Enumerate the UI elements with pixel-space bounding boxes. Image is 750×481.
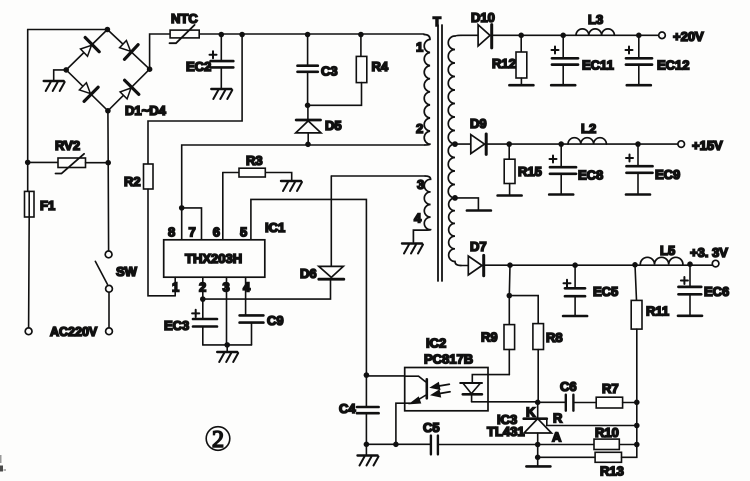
scan mark left edge bbox=[0, 455, 6, 472]
node C3 R4 junction bbox=[305, 103, 311, 109]
node D7 feedback branch bbox=[507, 262, 513, 268]
terminal +3.3V bbox=[712, 260, 719, 267]
wire LED cathode to K node bbox=[472, 401, 538, 403]
wire node column R11 to R10 bbox=[636, 402, 638, 444]
wire +20V rail bbox=[492, 34, 659, 36]
svg-text:C6: C6 bbox=[560, 379, 577, 394]
node C4 bottom ground bbox=[364, 442, 370, 448]
svg-text:TL431: TL431 bbox=[487, 424, 525, 439]
wire secondary top to D10 bbox=[461, 34, 478, 36]
svg-text:C9: C9 bbox=[267, 313, 284, 328]
svg-text:R11: R11 bbox=[646, 304, 669, 319]
svg-text:A: A bbox=[552, 430, 562, 445]
ground R3 bbox=[281, 181, 302, 191]
svg-text:D6: D6 bbox=[300, 266, 317, 281]
resistor R7 bbox=[596, 381, 637, 408]
node bridge top bbox=[105, 27, 111, 33]
svg-text:AC220V: AC220V bbox=[50, 325, 98, 339]
transformer T primary winding 1-2 bbox=[416, 35, 430, 146]
wire D6 anode to aux winding pin3 bbox=[331, 175, 425, 177]
wire R2 bottom to IC1 pin1 bbox=[148, 189, 175, 296]
node emitter ground rail bbox=[393, 442, 399, 448]
node C4 top bbox=[364, 372, 370, 378]
svg-text:D1~D4: D1~D4 bbox=[125, 103, 167, 118]
thermistor NTC bbox=[170, 11, 200, 43]
svg-text:5: 5 bbox=[240, 225, 247, 240]
svg-text:THX203H: THX203H bbox=[185, 251, 242, 266]
wire pin7 tie bbox=[182, 208, 202, 240]
node bridge right bbox=[147, 66, 153, 72]
node RV2 left junction bbox=[25, 160, 31, 166]
wire C4 node to collector bbox=[366, 375, 404, 377]
node K junction bbox=[535, 400, 541, 406]
svg-text:+20V: +20V bbox=[673, 29, 704, 44]
wire R9 node to R8 bbox=[509, 296, 538, 324]
svg-text:F1: F1 bbox=[40, 198, 55, 213]
resistor R11 bbox=[631, 265, 669, 403]
svg-text:EC9: EC9 bbox=[655, 167, 680, 182]
wire bridge right up to NTC bbox=[150, 34, 170, 69]
wire top rail NTC to transformer bbox=[199, 33, 424, 35]
wire primary ground rail to C5 bbox=[366, 443, 430, 445]
ground C4 bbox=[358, 444, 379, 465]
ground EC2 bbox=[211, 89, 232, 99]
phototransistor IC2 bbox=[405, 376, 427, 404]
node secondary tap ground bbox=[452, 195, 458, 201]
shunt regulator U3 TL431 bbox=[487, 402, 637, 444]
wire +3.3V rail bbox=[484, 264, 713, 266]
wire K node to C6 bbox=[538, 401, 566, 403]
inductor L2 bbox=[568, 121, 606, 144]
transformer T core bbox=[433, 14, 442, 281]
svg-text:EC11: EC11 bbox=[582, 58, 614, 73]
capacitor EC9 bbox=[626, 141, 680, 193]
ground R15 bbox=[498, 195, 522, 197]
svg-text:7: 7 bbox=[189, 225, 196, 240]
ground bridge left bbox=[44, 81, 65, 91]
node D5 bottom on drain wire bbox=[305, 142, 311, 148]
svg-text:3: 3 bbox=[417, 177, 424, 192]
diode D3 bottom-left bbox=[79, 83, 98, 102]
ground EC6 bbox=[678, 315, 702, 317]
capacitor EC6 bbox=[679, 261, 730, 314]
IC U1 THX203H bbox=[164, 220, 286, 277]
wire bridge left to ground bbox=[54, 70, 66, 80]
ground TL431 bbox=[526, 465, 550, 467]
ground EC12 bbox=[627, 84, 651, 86]
svg-text:D7: D7 bbox=[470, 239, 487, 254]
wire drain rail pin2 to IC1 pins 7 8 bbox=[182, 145, 423, 240]
node R10 right bbox=[634, 442, 640, 448]
svg-text:D9: D9 bbox=[470, 116, 487, 131]
wire bridge bottom down to SW bbox=[107, 111, 110, 251]
wire C6 to R7 bbox=[573, 402, 596, 404]
svg-text:6: 6 bbox=[213, 225, 220, 240]
switch SW bbox=[95, 251, 137, 335]
capacitor C3 bbox=[298, 32, 338, 106]
svg-text:1: 1 bbox=[416, 40, 423, 55]
wire EC3 C9 ground rail bbox=[203, 344, 252, 346]
wire secondary tap to ground bbox=[455, 198, 478, 210]
diode D4 bottom-right bbox=[120, 80, 139, 99]
svg-text:IC1: IC1 bbox=[265, 220, 285, 235]
wire C5 to TL431 anode node bbox=[438, 444, 538, 446]
capacitor C4 bbox=[339, 375, 379, 444]
capacitor C9 bbox=[240, 313, 284, 345]
LED IC2 bbox=[460, 383, 482, 402]
svg-text:R7: R7 bbox=[602, 381, 619, 396]
capacitor EC2 bbox=[186, 35, 233, 89]
node RV2 right junction bbox=[105, 160, 111, 166]
node pins 7 8 tie bbox=[179, 205, 185, 211]
light arrows IC2 bbox=[431, 383, 450, 397]
resistor R15 bbox=[504, 141, 542, 194]
svg-text:EC5: EC5 bbox=[593, 284, 618, 299]
node R9 top bbox=[507, 293, 513, 299]
capacitor EC3 bbox=[164, 299, 217, 345]
inductor L5 bbox=[640, 243, 683, 264]
node EC2 top bbox=[219, 32, 225, 38]
svg-text:2: 2 bbox=[212, 427, 224, 453]
label circled 2 bbox=[206, 427, 230, 453]
svg-text:8: 8 bbox=[168, 225, 175, 240]
svg-text:R8: R8 bbox=[546, 330, 563, 345]
resistor R9 bbox=[481, 296, 515, 375]
fuse F1 bbox=[25, 191, 56, 217]
diode D9 bbox=[470, 116, 487, 154]
diode D2 top-right bbox=[120, 41, 139, 60]
node R7 right bbox=[634, 400, 640, 406]
terminal AC220V left bbox=[25, 328, 32, 335]
svg-text:EC12: EC12 bbox=[657, 58, 690, 73]
node secondary tap D9 bbox=[452, 141, 458, 147]
capacitor EC11 bbox=[552, 33, 614, 85]
wire pin2 down to ground rail bbox=[202, 277, 204, 299]
svg-text:R10: R10 bbox=[595, 425, 619, 440]
svg-text:2: 2 bbox=[416, 121, 423, 136]
wire F1 to terminal bbox=[28, 217, 31, 328]
ground EC5 bbox=[563, 315, 587, 317]
svg-text:R12: R12 bbox=[492, 56, 516, 71]
resistor R2 bbox=[124, 164, 153, 189]
svg-text:D10: D10 bbox=[471, 10, 495, 25]
svg-text:PC817B: PC817B bbox=[424, 352, 473, 367]
svg-text:C3: C3 bbox=[321, 64, 338, 79]
svg-text:EC2: EC2 bbox=[186, 59, 211, 74]
svg-text:SW: SW bbox=[116, 264, 138, 279]
wire pin1 down bbox=[174, 277, 176, 296]
svg-text:4: 4 bbox=[414, 211, 422, 226]
svg-text:NTC: NTC bbox=[171, 11, 198, 26]
wire anode down bbox=[537, 445, 539, 458]
svg-text:R3: R3 bbox=[246, 153, 263, 168]
svg-text:T: T bbox=[433, 14, 441, 29]
svg-text:D5: D5 bbox=[325, 118, 342, 133]
bridge rectifier D1~D4 bbox=[66, 30, 166, 119]
svg-text:C5: C5 bbox=[423, 420, 440, 435]
wire pin5 feedback to optocoupler bbox=[251, 199, 367, 375]
svg-text:C4: C4 bbox=[339, 401, 356, 416]
diode D1 top-left bbox=[81, 38, 100, 57]
wire pin3 down bbox=[226, 277, 228, 345]
resistor R12 bbox=[492, 33, 527, 85]
node R13 left bbox=[535, 455, 541, 461]
resistor R8 bbox=[533, 324, 563, 403]
node R2 branch top bbox=[239, 32, 245, 38]
wire left AC rail vertical bbox=[27, 30, 29, 163]
wire TL431 anode to ground bbox=[537, 457, 539, 465]
node ground rail pin3 bbox=[224, 342, 230, 348]
svg-text:4: 4 bbox=[243, 280, 251, 295]
svg-text:K: K bbox=[526, 405, 536, 420]
wire RV2 left to F1 bbox=[28, 162, 58, 191]
svg-text:R4: R4 bbox=[372, 59, 389, 74]
svg-text:R13: R13 bbox=[600, 464, 624, 479]
svg-text:EC8: EC8 bbox=[578, 168, 603, 183]
inductor L3 bbox=[576, 12, 614, 35]
wire pin6 up bbox=[222, 173, 224, 240]
svg-text:EC6: EC6 bbox=[704, 284, 729, 299]
varistor RV2 bbox=[55, 138, 86, 174]
svg-text:IC2: IC2 bbox=[426, 336, 446, 351]
resistor R13 bbox=[538, 445, 637, 479]
capacitor EC12 bbox=[626, 33, 690, 85]
svg-text:L2: L2 bbox=[581, 121, 596, 136]
svg-text:R15: R15 bbox=[518, 164, 542, 179]
svg-text:EC3: EC3 bbox=[164, 318, 189, 333]
svg-text:R9: R9 bbox=[481, 330, 498, 345]
diode D7 bbox=[468, 239, 486, 276]
wire left AC rail top bbox=[28, 29, 108, 31]
node bridge bottom bbox=[105, 108, 111, 114]
transformer T aux winding 3-4 bbox=[413, 176, 430, 242]
diode D6 bbox=[300, 176, 344, 281]
ground secondary tap bbox=[467, 210, 491, 212]
node anode junction bbox=[535, 442, 541, 448]
wire secondary bottom to D7 bbox=[461, 265, 468, 267]
svg-text:L5: L5 bbox=[660, 243, 675, 258]
diode D10 bbox=[471, 10, 495, 48]
node L5 R11 junction bbox=[632, 262, 638, 268]
ground EC11 bbox=[551, 84, 575, 86]
ground EC3 C9 bbox=[217, 345, 238, 362]
ground R12 bbox=[509, 84, 533, 86]
resistor R10 bbox=[538, 425, 637, 450]
wire secondary tap to D9 bbox=[455, 143, 471, 145]
wire emitter to ground rail bbox=[396, 403, 405, 444]
node pin2 junction bbox=[200, 296, 206, 302]
ground EC8 bbox=[549, 194, 573, 196]
svg-text:L3: L3 bbox=[588, 12, 603, 27]
capacitor C5 bbox=[423, 420, 440, 454]
capacitor C6 bbox=[560, 379, 577, 411]
node ref line right bbox=[634, 423, 640, 429]
svg-text:RV2: RV2 bbox=[55, 138, 80, 153]
optocoupler U2 PC817B box bbox=[405, 336, 488, 411]
transformer T secondary winding bbox=[448, 35, 461, 265]
wire D7 node down to R9 R8 bbox=[508, 265, 511, 295]
wire pin2 to D6 cathode bbox=[203, 280, 331, 299]
wire pin4 down to C9 bbox=[245, 277, 247, 315]
wire +15V rail bbox=[486, 143, 678, 145]
capacitor EC8 bbox=[550, 141, 604, 193]
diode D5 bbox=[296, 105, 342, 144]
wire R9 bottom to LED anode bbox=[472, 375, 509, 383]
terminal +20V bbox=[659, 32, 666, 39]
svg-text:+3. 3V: +3. 3V bbox=[690, 245, 728, 260]
resistor R4 bbox=[308, 32, 389, 106]
ground aux winding pin4 bbox=[402, 244, 423, 254]
terminal +15V bbox=[678, 141, 685, 148]
capacitor EC5 bbox=[564, 262, 619, 315]
ground EC9 bbox=[626, 194, 650, 196]
resistor R3 bbox=[223, 153, 292, 180]
svg-text:R: R bbox=[553, 411, 563, 426]
node bridge left bbox=[63, 67, 69, 73]
svg-text:+15V: +15V bbox=[692, 138, 723, 153]
wire RV2 right to bottom vertex rail bbox=[86, 162, 109, 164]
wire R2 branch down and left bbox=[148, 35, 242, 165]
svg-text:R2: R2 bbox=[124, 174, 141, 189]
